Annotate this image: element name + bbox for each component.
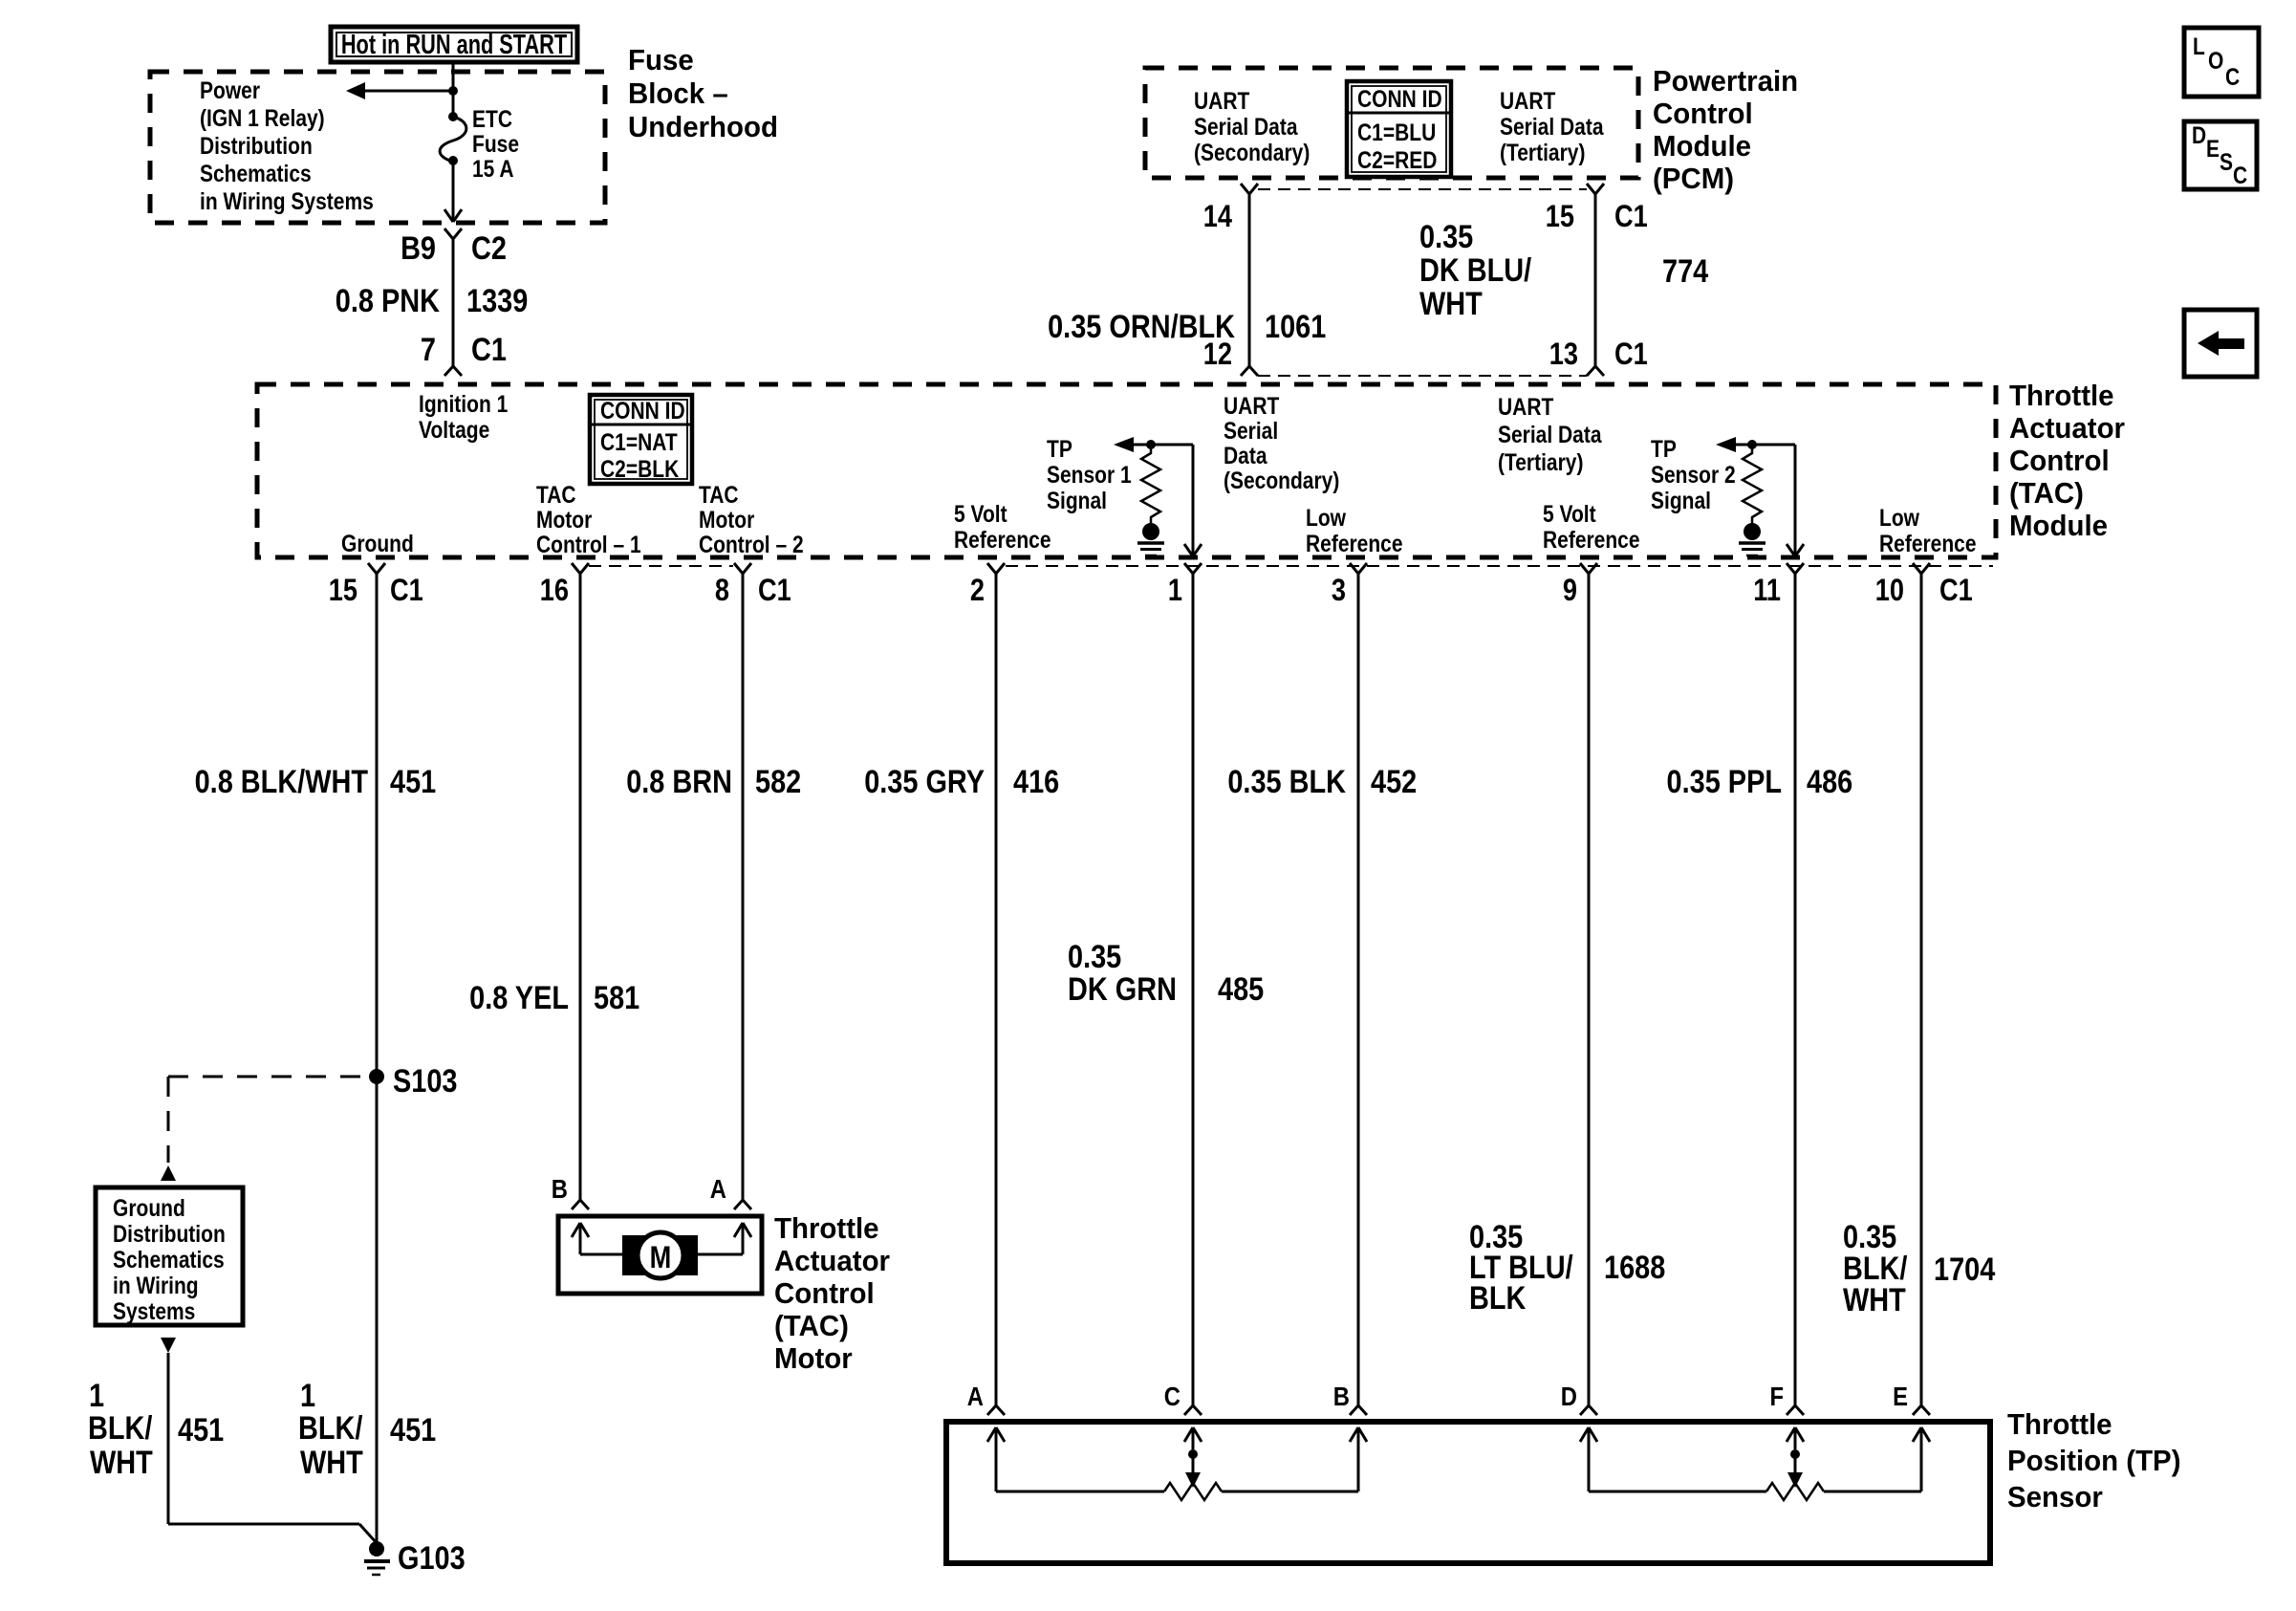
svg-text:M: M xyxy=(650,1241,672,1275)
svg-text:(TAC): (TAC) xyxy=(774,1310,849,1342)
svg-text:1688: 1688 xyxy=(1604,1249,1665,1286)
svg-text:451: 451 xyxy=(178,1411,224,1448)
svg-text:C1: C1 xyxy=(390,574,423,608)
svg-text:Power: Power xyxy=(200,76,260,103)
svg-text:Sensor: Sensor xyxy=(2007,1481,2103,1513)
svg-text:14: 14 xyxy=(1203,200,1233,234)
svg-text:451: 451 xyxy=(390,1411,436,1448)
svg-text:(Tertiary): (Tertiary) xyxy=(1500,139,1585,165)
svg-text:0.35 ORN/BLK: 0.35 ORN/BLK xyxy=(1048,308,1235,345)
svg-text:L: L xyxy=(2193,33,2205,59)
svg-text:9: 9 xyxy=(1563,574,1577,608)
svg-text:C1=BLU: C1=BLU xyxy=(1357,119,1436,145)
svg-text:(TAC): (TAC) xyxy=(2009,477,2084,510)
svg-text:13: 13 xyxy=(1549,337,1578,372)
svg-text:0.8 BLK/WHT: 0.8 BLK/WHT xyxy=(195,763,368,800)
svg-text:Control – 2: Control – 2 xyxy=(699,531,804,557)
svg-text:in Wiring: in Wiring xyxy=(113,1272,199,1298)
svg-text:Control: Control xyxy=(2009,445,2110,477)
svg-text:2: 2 xyxy=(970,574,985,608)
svg-text:UART: UART xyxy=(1500,87,1555,114)
svg-text:CONN ID: CONN ID xyxy=(600,397,685,424)
svg-text:C: C xyxy=(2233,162,2247,188)
svg-text:Serial Data: Serial Data xyxy=(1194,113,1298,140)
svg-text:C1: C1 xyxy=(1939,574,1973,608)
svg-text:1339: 1339 xyxy=(466,282,528,319)
svg-text:Voltage: Voltage xyxy=(419,416,489,443)
svg-text:774: 774 xyxy=(1662,252,1709,290)
svg-text:451: 451 xyxy=(390,763,436,800)
svg-text:C1: C1 xyxy=(1614,200,1648,234)
svg-text:416: 416 xyxy=(1013,763,1059,800)
svg-text:C1=NAT: C1=NAT xyxy=(600,428,678,455)
svg-text:Ground: Ground xyxy=(341,530,414,556)
svg-text:UART: UART xyxy=(1498,393,1553,420)
svg-text:486: 486 xyxy=(1807,763,1852,800)
svg-text:CONN ID: CONN ID xyxy=(1357,85,1442,112)
svg-text:Sensor 2: Sensor 2 xyxy=(1651,461,1736,488)
svg-text:Motor: Motor xyxy=(774,1342,853,1375)
svg-text:Actuator: Actuator xyxy=(774,1245,890,1277)
svg-text:C: C xyxy=(2225,63,2240,90)
svg-text:Powertrain: Powertrain xyxy=(1653,65,1798,98)
svg-text:ETC: ETC xyxy=(472,105,512,132)
svg-text:(Tertiary): (Tertiary) xyxy=(1498,448,1583,475)
svg-text:UART: UART xyxy=(1194,87,1249,114)
svg-text:Underhood: Underhood xyxy=(628,111,778,143)
svg-text:0.8 BRN: 0.8 BRN xyxy=(626,763,732,800)
svg-text:B: B xyxy=(1333,1381,1350,1411)
svg-text:Position (TP): Position (TP) xyxy=(2007,1445,2181,1477)
svg-text:Motor: Motor xyxy=(536,506,592,533)
svg-text:Control: Control xyxy=(774,1277,875,1310)
svg-text:Signal: Signal xyxy=(1047,487,1107,513)
svg-text:Low: Low xyxy=(1879,504,1919,531)
svg-text:Signal: Signal xyxy=(1651,487,1711,513)
svg-text:582: 582 xyxy=(755,763,801,800)
svg-text:C2=RED: C2=RED xyxy=(1357,146,1437,173)
svg-text:O: O xyxy=(2208,47,2223,74)
svg-text:1: 1 xyxy=(89,1377,104,1414)
svg-text:1: 1 xyxy=(1168,574,1182,608)
svg-text:Serial: Serial xyxy=(1224,417,1278,444)
svg-text:TP: TP xyxy=(1047,435,1072,462)
svg-text:Block –: Block – xyxy=(628,77,728,110)
svg-text:Throttle: Throttle xyxy=(774,1212,879,1245)
svg-text:3: 3 xyxy=(1332,574,1346,608)
svg-text:Ground: Ground xyxy=(113,1194,185,1221)
svg-text:DK BLU/: DK BLU/ xyxy=(1419,251,1531,289)
svg-text:BLK: BLK xyxy=(1469,1279,1527,1317)
svg-text:Throttle: Throttle xyxy=(2007,1408,2112,1441)
svg-text:C1: C1 xyxy=(471,331,507,368)
svg-text:C1: C1 xyxy=(758,574,791,608)
svg-text:E: E xyxy=(1893,1381,1908,1411)
svg-text:5 Volt: 5 Volt xyxy=(1543,500,1596,527)
svg-text:Module: Module xyxy=(2009,510,2108,542)
svg-text:Systems: Systems xyxy=(113,1297,195,1324)
svg-text:5 Volt: 5 Volt xyxy=(954,500,1007,527)
svg-text:WHT: WHT xyxy=(90,1444,153,1481)
svg-text:Motor: Motor xyxy=(699,506,754,533)
svg-text:Serial Data: Serial Data xyxy=(1498,421,1602,447)
svg-text:15: 15 xyxy=(329,574,357,608)
svg-text:(IGN 1 Relay): (IGN 1 Relay) xyxy=(200,104,325,131)
svg-text:0.35 PPL: 0.35 PPL xyxy=(1667,763,1782,800)
svg-text:TAC: TAC xyxy=(536,481,576,508)
svg-text:0.8 YEL: 0.8 YEL xyxy=(469,979,569,1016)
svg-text:Module: Module xyxy=(1653,130,1751,163)
svg-text:WHT: WHT xyxy=(300,1444,363,1481)
svg-text:E: E xyxy=(2206,135,2220,162)
svg-text:Reference: Reference xyxy=(1879,530,1977,556)
svg-text:UART: UART xyxy=(1224,392,1279,419)
svg-text:TAC: TAC xyxy=(699,481,739,508)
svg-text:0.35 GRY: 0.35 GRY xyxy=(864,763,985,800)
svg-text:1704: 1704 xyxy=(1934,1251,1996,1288)
svg-text:581: 581 xyxy=(594,979,639,1016)
svg-text:D: D xyxy=(1561,1381,1577,1411)
svg-text:0.35: 0.35 xyxy=(1068,938,1121,975)
svg-text:Distribution: Distribution xyxy=(113,1220,226,1247)
svg-text:A: A xyxy=(710,1173,726,1204)
svg-text:1061: 1061 xyxy=(1265,308,1326,345)
svg-text:Data: Data xyxy=(1224,442,1267,468)
svg-text:Ignition 1: Ignition 1 xyxy=(419,390,508,417)
svg-text:Reference: Reference xyxy=(1543,526,1640,553)
svg-text:Control: Control xyxy=(1653,98,1753,130)
svg-text:C1: C1 xyxy=(1614,337,1648,372)
svg-text:D: D xyxy=(2192,121,2206,148)
svg-text:Schematics: Schematics xyxy=(113,1246,225,1273)
svg-text:Hot in RUN and START: Hot in RUN and START xyxy=(341,30,568,60)
svg-text:Schematics: Schematics xyxy=(200,160,312,186)
svg-text:BLK/: BLK/ xyxy=(298,1409,363,1447)
svg-text:452: 452 xyxy=(1371,763,1417,800)
svg-text:WHT: WHT xyxy=(1419,285,1483,322)
svg-text:DK GRN: DK GRN xyxy=(1068,970,1177,1008)
svg-text:16: 16 xyxy=(540,574,569,608)
svg-text:G103: G103 xyxy=(398,1539,466,1577)
svg-text:(Secondary): (Secondary) xyxy=(1194,139,1310,165)
svg-text:Distribution: Distribution xyxy=(200,132,313,159)
svg-text:B9: B9 xyxy=(401,229,436,267)
svg-text:BLK/: BLK/ xyxy=(88,1409,153,1447)
svg-text:8: 8 xyxy=(715,574,729,608)
svg-text:485: 485 xyxy=(1218,970,1264,1008)
svg-text:11: 11 xyxy=(1753,574,1781,608)
svg-text:S: S xyxy=(2220,148,2233,175)
svg-text:(Secondary): (Secondary) xyxy=(1224,467,1339,493)
svg-text:Actuator: Actuator xyxy=(2009,412,2125,445)
svg-text:C2=BLK: C2=BLK xyxy=(600,455,680,482)
svg-text:Sensor 1: Sensor 1 xyxy=(1047,461,1132,488)
svg-text:Reference: Reference xyxy=(954,526,1051,553)
svg-text:10: 10 xyxy=(1875,574,1904,608)
svg-text:0.8 PNK: 0.8 PNK xyxy=(336,282,440,319)
svg-text:C2: C2 xyxy=(471,229,507,267)
svg-text:B: B xyxy=(552,1173,568,1204)
svg-text:1: 1 xyxy=(300,1377,315,1414)
svg-text:C: C xyxy=(1164,1381,1180,1411)
svg-text:WHT: WHT xyxy=(1843,1281,1906,1318)
svg-text:F: F xyxy=(1769,1381,1784,1411)
svg-text:in Wiring Systems: in Wiring Systems xyxy=(200,187,374,214)
svg-text:Reference: Reference xyxy=(1306,530,1403,556)
svg-text:Fuse: Fuse xyxy=(628,44,694,76)
svg-text:TP: TP xyxy=(1651,435,1677,462)
svg-text:Serial Data: Serial Data xyxy=(1500,113,1604,140)
svg-text:S103: S103 xyxy=(393,1062,457,1099)
svg-text:15 A: 15 A xyxy=(472,155,514,182)
svg-text:Control – 1: Control – 1 xyxy=(536,531,641,557)
svg-text:0.35: 0.35 xyxy=(1419,218,1473,255)
svg-text:(PCM): (PCM) xyxy=(1653,163,1734,195)
svg-text:7: 7 xyxy=(421,331,436,368)
svg-text:A: A xyxy=(967,1381,984,1411)
svg-text:15: 15 xyxy=(1546,200,1574,234)
svg-text:0.35 BLK: 0.35 BLK xyxy=(1227,763,1346,800)
svg-text:Low: Low xyxy=(1306,504,1346,531)
svg-text:Fuse: Fuse xyxy=(472,130,519,157)
svg-text:Throttle: Throttle xyxy=(2009,380,2114,412)
